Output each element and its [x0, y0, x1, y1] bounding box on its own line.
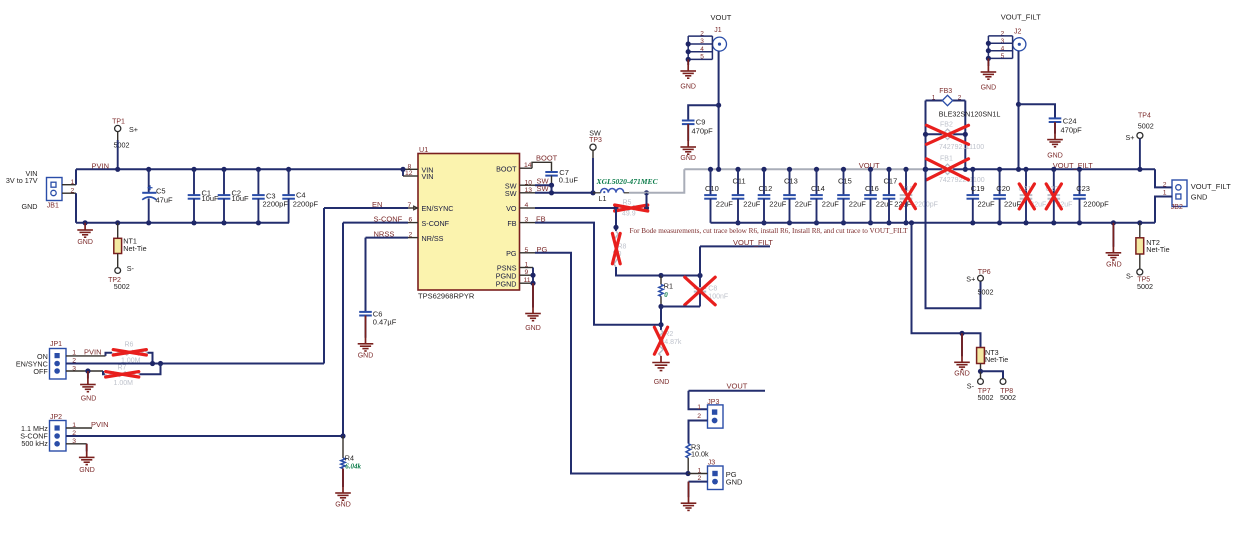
svg-text:FB2: FB2	[940, 121, 953, 128]
wire VOUT rail (gray)	[684, 168, 925, 170]
svg-text:742792111100: 742792111100	[939, 144, 984, 151]
U1 pin 2 NR/SS	[408, 237, 418, 239]
svg-text:GND: GND	[1191, 193, 1208, 202]
svg-text:GND: GND	[981, 85, 997, 92]
resistor R6 (DNP)	[112, 351, 148, 355]
svg-text:C13: C13	[784, 177, 798, 186]
capacitor C21 (DNP)	[1023, 167, 1028, 172]
capacitor C9	[682, 120, 695, 122]
U1 pin 11 PGND	[520, 282, 534, 284]
svg-text:R4: R4	[345, 453, 354, 462]
svg-text:TP4: TP4	[1138, 113, 1151, 120]
svg-text:5002: 5002	[1137, 282, 1153, 291]
svg-text:14: 14	[524, 162, 532, 169]
wire J1 center to VOUT rail	[718, 51, 720, 169]
svg-text:2200pF: 2200pF	[263, 199, 289, 208]
wire J1 shield to ground	[687, 59, 689, 65]
svg-text:4.87k: 4.87k	[664, 339, 682, 346]
wire PGND pins common	[532, 268, 534, 284]
svg-text:C23: C23	[1076, 184, 1090, 193]
wire BOOT net	[532, 162, 552, 172]
U1 pin 10 SW	[520, 184, 536, 186]
svg-text:VOUT_FILT: VOUT_FILT	[1001, 13, 1041, 22]
wire R5 right to SW node	[646, 193, 648, 208]
svg-text:6.04k: 6.04k	[345, 462, 361, 470]
wire J2 center to VOUT_FILT rail	[1018, 51, 1020, 169]
svg-text:3: 3	[525, 217, 529, 224]
svg-text:1: 1	[525, 262, 529, 269]
wire TP4 to rail	[1139, 139, 1141, 170]
svg-text:PGND: PGND	[496, 279, 517, 288]
svg-text:GND: GND	[680, 155, 696, 162]
svg-text:22uF: 22uF	[978, 200, 996, 209]
resistor R1	[660, 276, 662, 285]
svg-text:TPS62968RPYR: TPS62968RPYR	[418, 292, 475, 301]
wire R6 to EN node	[148, 353, 153, 364]
svg-text:5002: 5002	[114, 140, 130, 149]
svg-text:GND: GND	[525, 325, 541, 332]
resistor R8 (DNP)	[614, 231, 618, 267]
svg-text:VOUT_FILT: VOUT_FILT	[1191, 182, 1231, 191]
test point TP2	[115, 268, 121, 274]
svg-text:VIN: VIN	[422, 172, 434, 181]
svg-text:FB1: FB1	[940, 155, 953, 162]
resistor R3	[686, 444, 690, 458]
wire C24 branch	[1019, 104, 1056, 118]
wire FB stack left vertical	[925, 101, 927, 170]
ground symbol at J1	[680, 70, 696, 72]
svg-text:C11: C11	[733, 177, 746, 186]
svg-text:0.47µF: 0.47µF	[373, 317, 397, 326]
svg-text:2: 2	[409, 232, 413, 239]
dot J1 drop on rail	[716, 167, 721, 172]
capacitor C20	[997, 167, 1002, 172]
svg-text:5: 5	[525, 247, 529, 254]
wire JB1 pin1 to PVIN rail	[75, 169, 77, 184]
svg-text:J1: J1	[714, 27, 722, 34]
svg-text:GND: GND	[954, 371, 970, 378]
svg-text:12: 12	[405, 170, 413, 177]
svg-text:C5: C5	[156, 186, 166, 195]
svg-text:J2: J2	[1014, 28, 1022, 35]
svg-text:C10: C10	[705, 184, 719, 193]
svg-text:S-: S-	[1126, 271, 1134, 280]
wire C8 bottom to R1 bottom	[661, 306, 700, 308]
capacitor C18 (DNP)	[903, 167, 908, 172]
svg-text:Net-Tie: Net-Tie	[123, 244, 146, 253]
wire JP1 pin1 to R6	[66, 355, 106, 357]
U1 pin 1 PSNS	[520, 267, 534, 269]
U1 pin 12 VIN	[403, 175, 418, 177]
capacitor C24	[1049, 117, 1062, 119]
svg-text:L1: L1	[599, 194, 607, 203]
U1 pin 7 EN/SYNC	[408, 207, 418, 209]
wire VOUT sense to TP6	[926, 169, 981, 308]
svg-text:PG: PG	[506, 249, 517, 258]
svg-text:Net-Tie: Net-Tie	[985, 355, 1008, 364]
svg-text:500 kHz: 500 kHz	[21, 439, 48, 448]
svg-text:VOUT_FILT: VOUT_FILT	[733, 238, 773, 247]
svg-text:47uF: 47uF	[156, 196, 174, 205]
test point TP5	[1137, 269, 1143, 275]
ferrite bead FB1 (DNP) on rail	[926, 168, 943, 170]
resistor R7 (DNP)	[105, 372, 140, 376]
svg-text:VOUT: VOUT	[711, 13, 732, 22]
svg-text:GND: GND	[358, 352, 374, 359]
svg-text:SW: SW	[589, 128, 601, 137]
wire NRSS net	[366, 237, 409, 239]
net-tie NT1	[115, 220, 120, 225]
svg-text:JB2: JB2	[1171, 204, 1183, 211]
ground symbol under C24	[1047, 139, 1063, 141]
svg-text:S+: S+	[129, 125, 138, 134]
svg-text:1.00M: 1.00M	[114, 380, 134, 387]
wire JP2 pin1 stub	[66, 427, 92, 429]
wire VO net	[535, 207, 616, 209]
ground symbol under U1	[525, 313, 541, 315]
svg-text:GND: GND	[335, 502, 351, 509]
svg-text:R1: R1	[664, 281, 673, 290]
U1 pin 6 S-CONF	[408, 222, 418, 224]
capacitor C14	[814, 167, 819, 172]
svg-text:5002: 5002	[1000, 393, 1016, 402]
wire JB1 pin2 to GND rail	[75, 193, 77, 223]
svg-text:470pF: 470pF	[1061, 126, 1083, 135]
svg-text:OFF: OFF	[33, 367, 48, 376]
wire C9 branch	[688, 105, 718, 120]
svg-text:1: 1	[697, 404, 701, 411]
svg-text:S+: S+	[966, 275, 975, 284]
svg-text:JP1: JP1	[50, 341, 62, 348]
ground symbol at input	[83, 220, 88, 225]
svg-text:5002: 5002	[978, 393, 994, 402]
capacitor C16	[868, 167, 873, 172]
wire EN net	[324, 207, 408, 209]
connector JB1	[47, 178, 63, 201]
svg-text:13: 13	[525, 187, 533, 194]
wire S-CONF net	[343, 222, 408, 224]
wire R5 left down	[615, 208, 617, 231]
svg-text:S-: S-	[127, 264, 135, 273]
wire JP1 pin3 row	[66, 370, 103, 372]
capacitor C11	[735, 167, 740, 172]
ground symbol under C9	[680, 146, 696, 148]
wire GND rail right section	[711, 222, 1156, 224]
svg-text:2: 2	[697, 413, 701, 420]
dot J2 drop on rail	[1016, 167, 1021, 172]
svg-text:6: 6	[409, 217, 413, 224]
svg-text:C20: C20	[996, 184, 1010, 193]
svg-text:C17: C17	[884, 177, 898, 186]
svg-text:XGL5020-471MEC: XGL5020-471MEC	[596, 177, 659, 186]
capacitor C22 (DNP)	[1051, 167, 1056, 172]
ferrite bead FB2 (DNP)	[926, 133, 943, 135]
ground symbol near NT3	[961, 333, 963, 356]
svg-text:TP3: TP3	[589, 137, 602, 144]
wire JP2 pin2 S-CONF row	[66, 435, 343, 437]
svg-text:S-: S-	[967, 381, 975, 390]
ground symbol under JP2	[79, 456, 95, 458]
ground symbol under J3	[681, 502, 697, 504]
svg-text:C9: C9	[696, 118, 706, 127]
U1 pin 13 SW	[520, 192, 536, 194]
wire JP1 pin2 EN row	[66, 363, 324, 365]
wire VOUT_FILT stub	[699, 246, 701, 275]
svg-text:C16: C16	[865, 184, 879, 193]
svg-text:SW: SW	[505, 189, 517, 198]
svg-text:2200pF: 2200pF	[1083, 200, 1109, 209]
U1 pin 4 VO	[520, 207, 536, 209]
svg-text:5002: 5002	[978, 288, 994, 297]
wire PGND to ground	[532, 283, 534, 307]
capacitor C13	[787, 167, 792, 172]
svg-text:U1: U1	[419, 145, 428, 154]
ground symbol under C6	[358, 343, 374, 345]
capacitor C6	[359, 311, 372, 313]
ground symbol at J2	[981, 71, 997, 73]
wire GND bottom rail left	[76, 222, 289, 224]
capacitor C1	[191, 167, 196, 172]
svg-text:C15: C15	[838, 177, 852, 186]
svg-text:C14: C14	[811, 184, 825, 193]
svg-text:VOUT: VOUT	[727, 381, 748, 390]
svg-text:FB: FB	[507, 219, 516, 228]
wire TP1 to PVIN rail	[117, 132, 119, 140]
svg-text:10uF: 10uF	[202, 194, 220, 203]
U1 pin 9 PGND	[520, 274, 534, 276]
svg-text:GND: GND	[77, 239, 93, 246]
svg-text:BOOT: BOOT	[496, 164, 517, 173]
svg-text:GND: GND	[654, 379, 670, 386]
svg-text:S+: S+	[1126, 133, 1135, 142]
svg-text:22uF: 22uF	[716, 199, 734, 208]
wire FB stack right vertical	[964, 101, 966, 170]
U1 pin 8 VIN	[403, 168, 418, 170]
svg-text:1: 1	[932, 94, 936, 101]
wire JP3 pin2 to R3	[689, 421, 708, 444]
capacitor C19	[970, 167, 975, 172]
svg-text:VO: VO	[506, 204, 517, 213]
wire JB2 pin1 to GND rail	[1155, 197, 1172, 223]
resistor R4	[342, 436, 344, 458]
svg-text:C24: C24	[1063, 117, 1077, 126]
ferrite bead FB3	[926, 100, 943, 102]
wire NT3 to TP7 TP8	[980, 371, 982, 378]
U1 pin 3 FB	[520, 222, 536, 224]
svg-text:22uF: 22uF	[876, 199, 894, 208]
wire R1 top to C8	[661, 275, 700, 277]
svg-text:BLE32SN120SN1L: BLE32SN120SN1L	[939, 109, 1001, 118]
svg-text:GND: GND	[79, 467, 95, 474]
capacitor C8 (DNP)	[699, 276, 701, 289]
capacitor C12	[761, 167, 766, 172]
inductor L1	[601, 189, 624, 193]
svg-text:GND: GND	[1106, 261, 1122, 268]
svg-text:Net-Tie: Net-Tie	[1146, 245, 1169, 254]
svg-text:FB3: FB3	[939, 88, 952, 95]
svg-text:For Bode measurements, cut tra: For Bode measurements, cut trace below R…	[630, 227, 909, 235]
svg-text:49.9: 49.9	[622, 211, 636, 218]
svg-text:GND: GND	[726, 477, 743, 486]
net-tie NT2	[1137, 220, 1142, 225]
test point TP8	[1000, 379, 1006, 385]
svg-text:C12: C12	[759, 184, 773, 193]
svg-text:C4: C4	[296, 190, 306, 199]
svg-text:0: 0	[664, 291, 668, 299]
ground symbol under R4	[335, 492, 351, 494]
wire R8 to R1 node	[616, 267, 661, 276]
test point TP7	[978, 379, 984, 385]
svg-text:7: 7	[408, 202, 412, 209]
svg-text:4: 4	[525, 202, 529, 209]
wire SW pin13 to L1	[535, 192, 593, 194]
capacitor C10	[708, 167, 713, 172]
svg-text:EN/SYNC: EN/SYNC	[422, 204, 454, 213]
wire VOUT to JP3	[689, 390, 766, 392]
svg-text:10uF: 10uF	[232, 194, 250, 203]
svg-text:GND: GND	[1047, 153, 1063, 160]
svg-text:TP1: TP1	[112, 119, 125, 126]
svg-text:NR/SS: NR/SS	[422, 234, 444, 243]
wire VOUT_FILT rail	[965, 168, 1155, 170]
wire PVIN top rail	[76, 168, 403, 170]
svg-text:0.1uF: 0.1uF	[559, 176, 579, 185]
svg-text:11: 11	[524, 277, 531, 284]
svg-text:10: 10	[525, 179, 533, 186]
svg-text:22uF: 22uF	[795, 199, 813, 208]
wire GND to NT3	[909, 220, 914, 225]
svg-text:GND: GND	[22, 202, 38, 211]
svg-text:470pF: 470pF	[692, 127, 714, 136]
resistor R2 (DNP)	[659, 330, 663, 356]
svg-text:GND: GND	[680, 84, 696, 91]
resistor R5 (DNP)	[616, 206, 647, 210]
capacitor C5	[146, 167, 151, 172]
svg-text:C8: C8	[708, 286, 717, 293]
svg-text:GND: GND	[81, 395, 97, 402]
wire SW pin10	[535, 184, 552, 186]
capacitor C4	[286, 167, 291, 172]
wire JP2 pin3 to ground	[66, 443, 87, 445]
U1 pin 14 BOOT	[520, 167, 533, 169]
svg-text:JB1: JB1	[47, 202, 59, 209]
svg-text:2: 2	[958, 94, 962, 101]
wire R1 bottom to R2	[660, 307, 662, 331]
svg-text:2200pF: 2200pF	[293, 199, 319, 208]
svg-text:22uF: 22uF	[849, 199, 867, 208]
ground symbol under R2	[660, 356, 662, 363]
svg-text:PVIN: PVIN	[91, 420, 109, 429]
svg-text:22uF: 22uF	[822, 199, 840, 208]
svg-text:C19: C19	[971, 184, 985, 193]
wire J3 pin2 to ground	[689, 481, 708, 483]
op-amp U1 TPS62968RPYR body	[418, 154, 520, 291]
svg-text:9: 9	[525, 269, 529, 276]
svg-text:5002: 5002	[114, 282, 130, 291]
wire J2 shield to ground	[987, 58, 989, 66]
svg-text:22uF: 22uF	[743, 199, 761, 208]
capacitor C3	[256, 167, 261, 172]
svg-text:S-CONF: S-CONF	[422, 219, 450, 228]
svg-text:R7: R7	[118, 364, 127, 371]
svg-text:10.0k: 10.0k	[691, 449, 709, 458]
svg-text:2: 2	[1163, 181, 1167, 188]
svg-text:22uF: 22uF	[769, 199, 787, 208]
capacitor C15	[841, 167, 846, 172]
svg-text:VOUT_FILT: VOUT_FILT	[1053, 161, 1093, 170]
svg-text:R6: R6	[125, 341, 134, 348]
wire cut-trace SW to VOUT (gray)	[629, 169, 684, 193]
svg-text:4: 4	[1001, 46, 1005, 53]
connector JB2	[1155, 169, 1172, 187]
capacitor C7	[545, 171, 558, 173]
capacitor C2	[221, 167, 226, 172]
ground symbol under JP1	[87, 371, 89, 379]
ground symbol right section	[1111, 220, 1116, 225]
net-tie NT3	[977, 348, 985, 364]
svg-text:PVIN: PVIN	[92, 161, 110, 170]
svg-text:3V to 17V: 3V to 17V	[6, 176, 38, 185]
capacitor C17	[886, 167, 891, 172]
wire R7 to EN node	[140, 364, 161, 375]
U1 pin 5 PG	[520, 252, 536, 254]
capacitor C23	[1077, 167, 1082, 172]
svg-text:5002: 5002	[1138, 122, 1154, 131]
svg-text:BOOT: BOOT	[536, 154, 558, 163]
